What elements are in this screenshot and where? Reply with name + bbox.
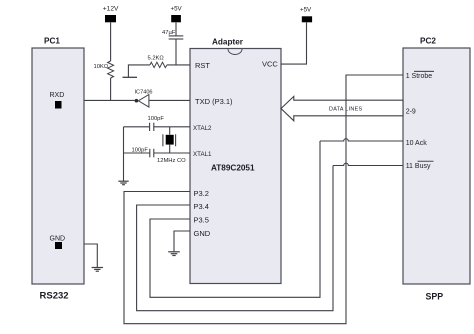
svg-text:VCC: VCC xyxy=(262,60,278,69)
wire Ack horizontal with hop over Strobe xyxy=(320,139,403,141)
svg-text:12MHz CO: 12MHz CO xyxy=(157,158,186,164)
wire +5V to capacitor 47uF xyxy=(175,22,177,36)
capacitor 100pF (XTAL1) xyxy=(132,148,154,158)
svg-text:RXD: RXD xyxy=(50,92,65,99)
svg-text:11 Busy: 11 Busy xyxy=(406,163,431,170)
wire RST net xyxy=(167,64,190,66)
op-amp / inverter IC7406 xyxy=(135,90,153,108)
pin 11 Busy label (active-low overline) xyxy=(406,161,434,170)
wire adapter GND xyxy=(174,231,190,252)
svg-text:IC7406: IC7406 xyxy=(135,90,153,96)
wire XTAL2 net xyxy=(154,126,190,128)
svg-text:+5V: +5V xyxy=(171,6,183,13)
capacitor 47uF xyxy=(162,30,183,39)
svg-text:2-9: 2-9 xyxy=(406,108,416,115)
wire XTAL1 net xyxy=(154,152,190,154)
svg-text:XTAL1: XTAL1 xyxy=(193,151,212,158)
wire cap to ground rail xyxy=(124,126,150,128)
svg-text:+12V: +12V xyxy=(103,6,119,13)
svg-text:P3.4: P3.4 xyxy=(194,202,209,211)
wire TXD to adapter xyxy=(149,99,190,101)
wire 5.2K left lead xyxy=(128,65,150,77)
svg-text:PC1: PC1 xyxy=(44,37,60,46)
pin 1 Strobe label (active-low overline) xyxy=(406,71,434,80)
svg-text:47µF: 47µF xyxy=(162,30,176,36)
svg-text:10KΩ: 10KΩ xyxy=(94,64,109,70)
svg-text:10 Ack: 10 Ack xyxy=(406,140,428,147)
svg-text:5.2KΩ: 5.2KΩ xyxy=(148,56,165,62)
wire 10K to TXD node xyxy=(110,78,112,100)
PC1 box xyxy=(32,37,84,302)
svg-text:GND: GND xyxy=(194,229,211,238)
ground (caps) xyxy=(118,181,128,185)
ground bar (5.2K return) xyxy=(123,76,138,78)
wire Ack to P3.5 net xyxy=(150,141,320,297)
svg-text:PC2: PC2 xyxy=(420,37,436,46)
capacitor 100pF (XTAL2) xyxy=(148,116,165,131)
svg-text:TXD (P3.1): TXD (P3.1) xyxy=(195,97,233,106)
DATA LINES bus arrow xyxy=(281,96,403,120)
ground (PC1) xyxy=(92,268,103,272)
svg-text:1 Strobe: 1 Strobe xyxy=(406,73,433,80)
svg-text:GND: GND xyxy=(50,236,66,243)
svg-text:+5V: +5V xyxy=(300,6,312,13)
svg-text:Adapter: Adapter xyxy=(212,38,244,47)
svg-text:P3.5: P3.5 xyxy=(194,216,209,225)
svg-text:RST: RST xyxy=(195,61,210,70)
svg-text:RS232: RS232 xyxy=(40,291,69,302)
svg-text:100pF: 100pF xyxy=(148,116,165,122)
wire Strobe to P3.2 net xyxy=(124,75,403,324)
svg-text:SPP: SPP xyxy=(426,292,444,302)
svg-text:AT89C2051: AT89C2051 xyxy=(211,164,255,173)
wire Busy horizontal with hop over Strobe xyxy=(333,163,403,165)
wire Busy to P3.4 net xyxy=(137,166,333,311)
wire TXD from PC1 RXD xyxy=(84,99,135,101)
svg-text:P3.2: P3.2 xyxy=(194,189,209,198)
PC2 box xyxy=(403,37,470,302)
wire capacitor to RST node xyxy=(175,39,177,65)
svg-text:XTAL2: XTAL2 xyxy=(193,125,212,132)
ground (adapter) xyxy=(168,252,180,256)
resistor 10K xyxy=(94,61,114,78)
+5V supply (right) xyxy=(300,6,312,22)
Adapter box U1 xyxy=(190,38,281,284)
pin RXD (PC1) xyxy=(50,92,65,109)
wire +12V to resistor 10K xyxy=(110,22,112,61)
+12V supply xyxy=(103,6,119,23)
wire PC1 GND xyxy=(84,244,97,267)
wire VCC net xyxy=(281,22,307,64)
+5V supply (left) xyxy=(171,6,183,23)
crystal 12MHz xyxy=(157,127,186,164)
wire cap to ground rail xyxy=(124,152,150,154)
wire ground rail for caps xyxy=(123,127,125,181)
resistor 5.2K xyxy=(148,56,168,68)
pin GND (PC1) xyxy=(50,236,66,250)
